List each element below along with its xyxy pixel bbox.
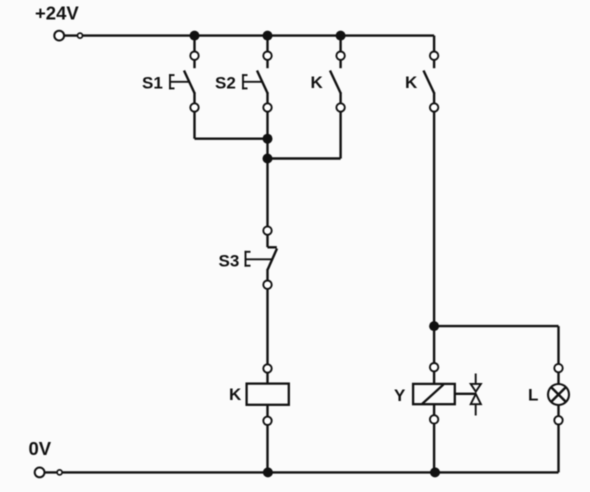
svg-text:S1: S1: [142, 74, 163, 93]
svg-text:K: K: [311, 73, 324, 92]
svg-text:K: K: [229, 385, 242, 404]
svg-text:K: K: [405, 73, 418, 92]
svg-text:0V: 0V: [29, 438, 52, 459]
svg-text:S2: S2: [215, 74, 236, 93]
svg-text:+24V: +24V: [35, 3, 79, 24]
svg-text:L: L: [528, 386, 538, 405]
svg-text:Y: Y: [394, 386, 406, 405]
svg-text:S3: S3: [219, 252, 240, 271]
